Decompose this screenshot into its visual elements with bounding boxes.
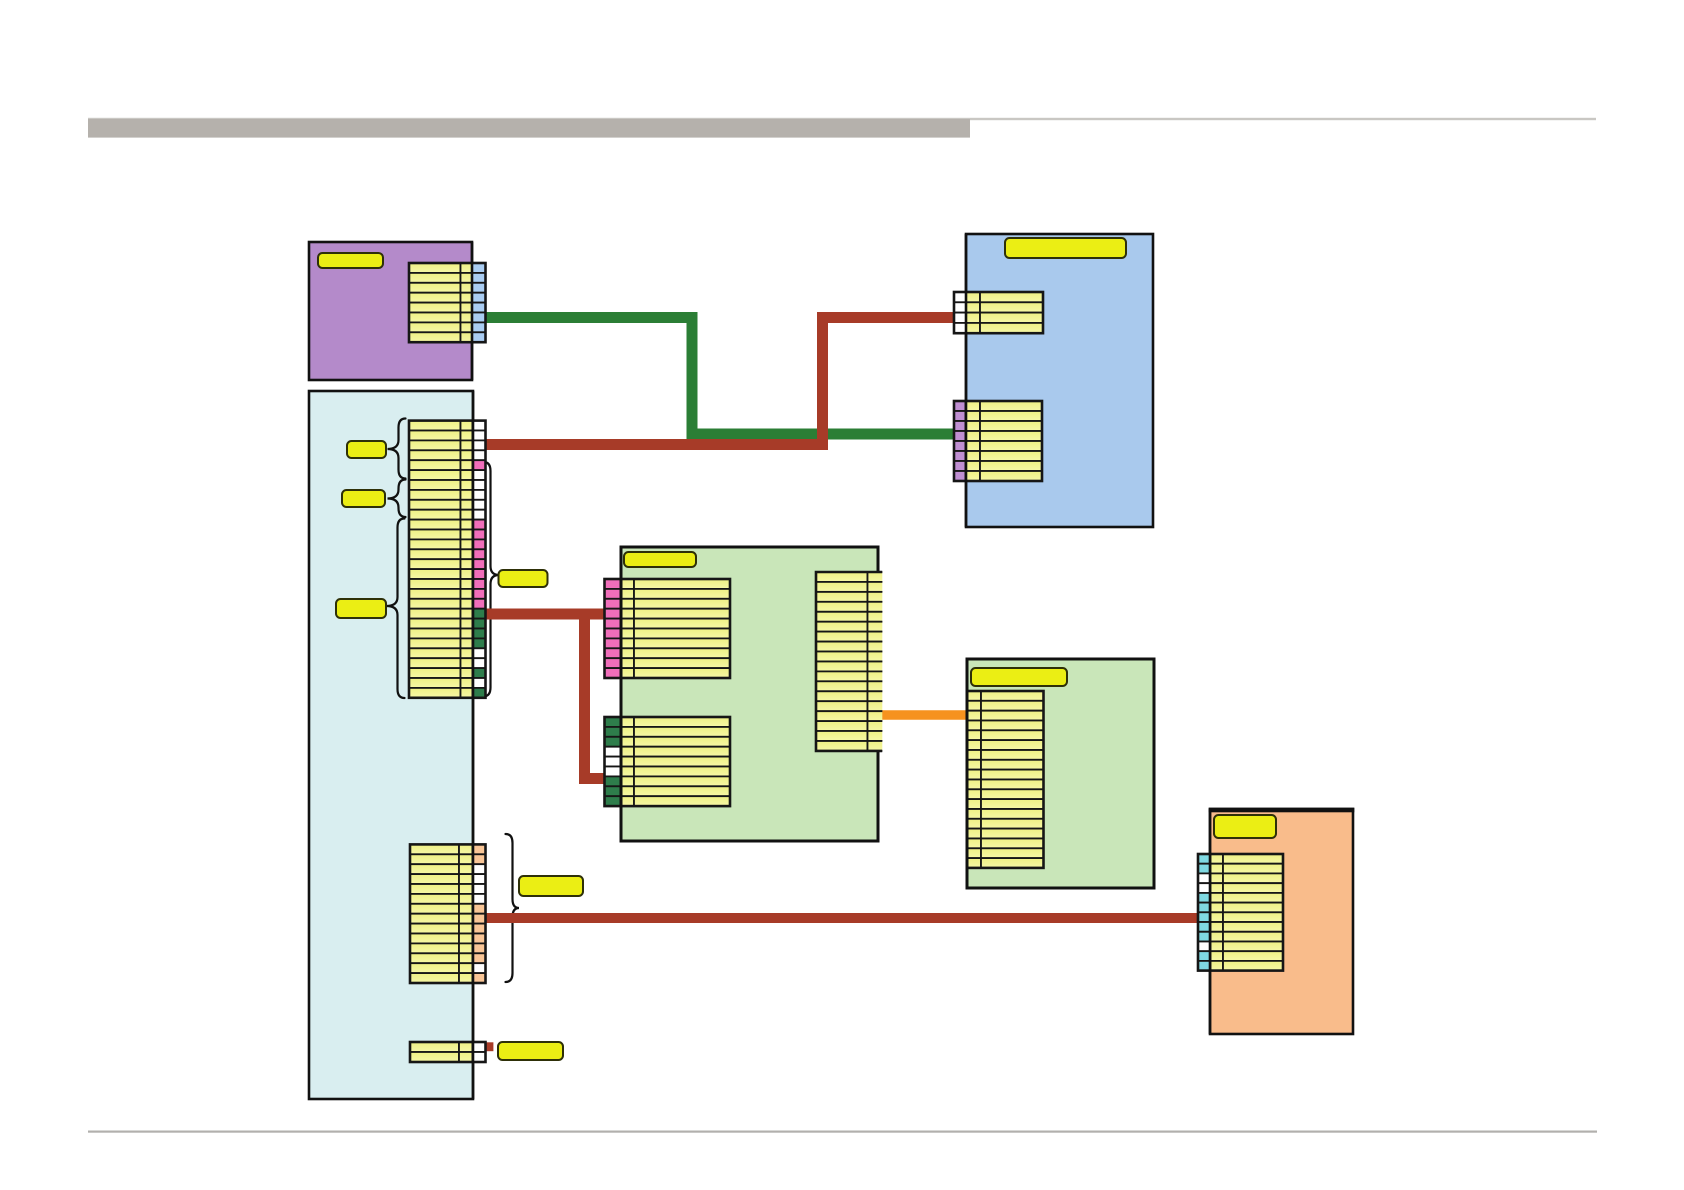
connector: cyan board bottom (2-pin) bbox=[410, 1042, 486, 1062]
board edge overlay: orange module left edge bbox=[1209, 809, 1212, 1034]
header gray title bar bbox=[88, 119, 970, 138]
wire stub: dark red at cyan bottom connector bbox=[486, 1042, 494, 1051]
label: green module name bbox=[624, 552, 696, 567]
label: pin group 1 name bbox=[347, 441, 386, 458]
label: right green module name bbox=[971, 668, 1067, 686]
board: orange module (bottom right) bbox=[1210, 809, 1353, 1034]
board: green module (center) bbox=[621, 547, 878, 841]
connector: cyan board main pin header (28-pin) bbox=[409, 421, 486, 698]
wire: dark red harness cyan->blue module bbox=[485, 318, 955, 445]
label: pin group 3 name bbox=[336, 599, 386, 618]
board: large cyan main board bbox=[309, 391, 473, 1099]
connector: right green module (18-pin) bbox=[967, 691, 1044, 868]
wire: green harness purple->blue module bbox=[485, 318, 957, 435]
board edge overlay: green module left edge bbox=[620, 547, 623, 841]
connector: green module lower-left (9-pin) bbox=[605, 717, 731, 806]
board: blue module (top right) bbox=[966, 234, 1153, 527]
label: lower connector name bbox=[519, 876, 583, 896]
connector: orange module (12-pin) bbox=[1198, 854, 1283, 971]
brace: pin group 1 bbox=[388, 419, 406, 479]
connector: green module upper-left (10-pin) bbox=[605, 579, 731, 678]
label: orange module name bbox=[1214, 815, 1276, 838]
header thin rule bbox=[88, 118, 1596, 120]
wire: orange harness green->right green module bbox=[878, 710, 967, 720]
wire: dark red harness cyan->green module (upper leg) bbox=[485, 609, 604, 620]
label: right signal group name bbox=[499, 570, 548, 587]
brace: lower connector group bbox=[506, 834, 520, 982]
connector: purple module pin header (8-pin) bbox=[409, 263, 486, 342]
brace: pin group 2 bbox=[388, 480, 406, 518]
board edge overlay: cyan board right edge bbox=[472, 391, 475, 1099]
board edge overlay: purple module right edge bbox=[471, 242, 474, 380]
board: green module (right) bbox=[967, 659, 1154, 888]
label: blue module name bbox=[1005, 238, 1126, 258]
brace: signal group right bbox=[484, 462, 500, 696]
wire: dark red harness branch (vertical + lower leg) bbox=[585, 609, 605, 779]
brace: pin group 3 bbox=[387, 519, 405, 699]
footer rule bbox=[88, 1131, 1597, 1133]
connector: cyan board lower pin header (14-pin) bbox=[410, 844, 486, 983]
label: pin group 2 name bbox=[342, 490, 385, 507]
label: bottom connector name bbox=[498, 1042, 563, 1060]
board: purple module bbox=[309, 242, 472, 380]
connector: blue module upper (4-pin) bbox=[954, 292, 1043, 333]
board edge overlay: blue module left edge bbox=[965, 234, 968, 527]
label: purple module name bbox=[318, 253, 383, 268]
connector: blue module lower (8-pin) bbox=[954, 401, 1042, 481]
board edge overlay: right green module left edge bbox=[966, 659, 969, 888]
wire: long dark red harness cyan->orange module bbox=[485, 913, 1198, 923]
